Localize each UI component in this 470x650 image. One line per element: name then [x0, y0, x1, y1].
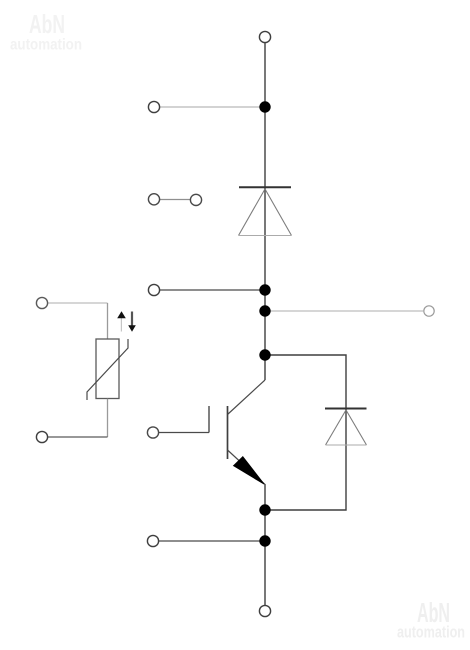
terminal bottom — [259, 605, 270, 616]
wire terminal2 to node A — [160, 106, 265, 108]
transistor Q1 channel bar — [227, 406, 229, 459]
diode D2 freewheel triangle — [326, 410, 367, 445]
diode D2 freewheel cathode bar — [325, 408, 367, 410]
node E junction — [259, 504, 270, 515]
node B junction — [259, 284, 270, 295]
wire emitter vertical — [264, 484, 266, 605]
thermistor R1 bottom stub — [107, 399, 109, 437]
thermistor R1 bottom wire — [48, 436, 108, 438]
transistor Q1 emitter arrow — [234, 457, 264, 484]
terminal collector aux — [148, 284, 159, 295]
terminal thermistor bottom — [36, 431, 47, 442]
terminal aux pair right — [190, 194, 201, 205]
svg-text:automation: automation — [397, 623, 465, 642]
thermistor R1 top stub — [107, 303, 109, 339]
terminal emitter aux — [147, 535, 158, 546]
terminal aux pair left — [148, 194, 159, 205]
transistor Q1 emitter diagonal — [228, 450, 266, 485]
terminal right — [424, 306, 434, 316]
thermistor R1 top wire — [48, 302, 108, 304]
terminal gate — [147, 427, 158, 438]
svg-text:AbN: AbN — [29, 9, 65, 39]
terminal top — [259, 31, 270, 42]
transistor Q1 IGBT collector diagonal — [228, 380, 266, 415]
terminal upper left — [148, 101, 159, 112]
arrow up — [120, 318, 122, 332]
transistor Q1 gate bar — [208, 406, 210, 433]
node C junction — [259, 305, 270, 316]
svg-text:automation: automation — [10, 37, 82, 54]
wire gate lead — [159, 432, 209, 434]
wire node C to right terminal — [265, 310, 423, 312]
wire main vertical collector line — [264, 43, 266, 380]
node D junction — [259, 349, 270, 360]
node F junction — [259, 535, 270, 546]
arrow down — [131, 312, 133, 327]
wire emitter aux to node F — [159, 540, 265, 542]
node A junction — [259, 101, 270, 112]
diode D1 cathode bar — [239, 186, 291, 188]
wire freewheel branch loop — [265, 355, 346, 510]
thermistor R1 body — [96, 339, 119, 399]
diode D1 triangle — [239, 189, 292, 236]
wire collector aux to node B — [160, 289, 265, 291]
thermistor R1 diagonal — [87, 339, 128, 400]
wire aux pair link — [160, 199, 190, 201]
terminal thermistor top — [36, 297, 47, 308]
